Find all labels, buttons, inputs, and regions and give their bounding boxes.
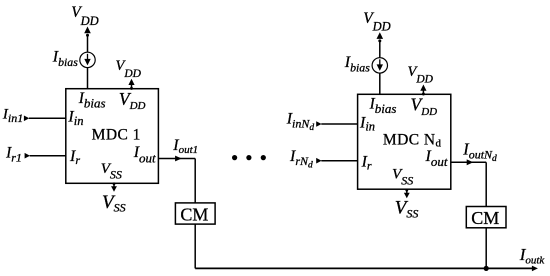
wire: output Iout1 from block 1 to corner <box>158 156 195 162</box>
current source I_bias (block 2) <box>372 58 387 73</box>
power VSS arrow below block 2 <box>404 189 410 198</box>
wire: input Ir1 (block 1) <box>25 153 66 159</box>
wire: current source to block 1 Ibias pin <box>87 68 89 89</box>
wire: corner down to CM 1 <box>194 159 196 203</box>
block MDC 1 box <box>66 89 159 184</box>
wire: input IrNd (block 2) <box>316 158 357 164</box>
wire: output IoutNd from block 2 to corner <box>451 159 486 165</box>
wire: VDD rail above current source (block 1) <box>84 27 91 53</box>
svg-text:CM: CM <box>180 204 208 224</box>
ellipsis dots between blocks <box>232 155 266 160</box>
wire: corner down to CM 2 <box>485 162 487 206</box>
wire: output bus with arrow (Ioutk) <box>195 266 538 272</box>
block CM 1 box <box>175 203 215 224</box>
power VDD arrow at block 1 top pin <box>128 79 134 90</box>
wire: CM 2 down to output bus <box>485 228 487 269</box>
power VDD arrow at block 2 top pin <box>420 85 426 96</box>
svg-text:CM: CM <box>471 208 499 228</box>
svg-text:MDC Nd: MDC Nd <box>383 132 442 150</box>
svg-text:MDC 1: MDC 1 <box>92 127 141 144</box>
junction dot on output bus <box>484 266 489 271</box>
wire: input Iin1 (block 1) <box>24 116 66 122</box>
wire: input IinNd (block 2) <box>316 121 357 127</box>
power VSS arrow below block 1 <box>111 182 117 191</box>
block MDC Nd box <box>358 94 451 189</box>
current source I_bias (block 1) <box>80 52 95 67</box>
wire: CM 1 down to output bus <box>194 224 196 268</box>
wire: current source to block 2 Ibias pin <box>379 73 381 94</box>
block CM 2 box <box>466 207 506 228</box>
wire: VDD rail above current source (block 2) <box>377 32 384 58</box>
